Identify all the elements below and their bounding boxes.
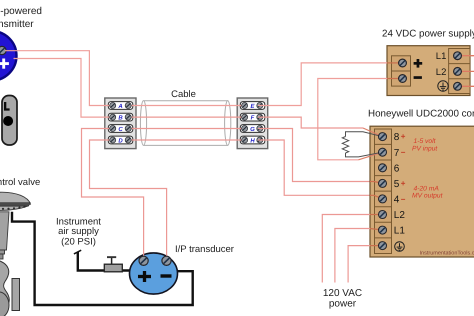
label: Instrument air supply (20 PSI): [56, 217, 101, 248]
gauge L (grey rounded object): [2, 96, 17, 146]
resistor 250 ohm across UDC 8 and 7: [342, 132, 382, 157]
wire stub into UDC terminal 5: [370, 182, 383, 184]
label: Loop-powered transmitter: [0, 6, 42, 30]
svg-text:Loop-powered: Loop-powered: [0, 6, 42, 17]
TB1 terminal letters A B C D: [117, 103, 123, 144]
UDC ground symbol: [395, 242, 405, 252]
label: 120 VAC power: [323, 288, 362, 310]
24V supply + symbol: [414, 59, 423, 79]
svg-text:D: D: [118, 137, 123, 144]
cable sheath: [140, 101, 230, 146]
label: 4-20 mA MV output: [412, 186, 444, 200]
wire: A to E conductor: [131, 105, 246, 107]
svg-text:L1: L1: [394, 226, 406, 237]
wire: terminal F to UDC terminal 8: [258, 117, 363, 128]
wire stub over box to + screw: [387, 62, 403, 64]
svg-text:5: 5: [394, 179, 400, 190]
label: 1-5 volt PV input: [412, 138, 438, 153]
UDC polarity marks: [401, 132, 406, 204]
hand valve on air supply line: [104, 256, 122, 272]
wire: terminal C to I/P +: [82, 129, 144, 257]
wire: D to H conductor: [131, 139, 246, 141]
svg-text:MV output: MV output: [412, 193, 444, 200]
control valve body with flange: [0, 259, 20, 316]
wire: 24V supply L2 to mains: [458, 70, 474, 72]
air supply tube into I/P: [74, 250, 131, 270]
svg-text:4-20 mA: 4-20 mA: [414, 186, 440, 193]
UDC terminal number labels: [394, 132, 406, 237]
svg-text:−: −: [401, 148, 406, 157]
wire stub into UDC terminal 7: [359, 152, 383, 160]
svg-text:+: +: [401, 179, 406, 188]
wire: UDC ground to 120VAC: [370, 245, 383, 247]
24V supply ground symbol: [438, 81, 448, 91]
svg-text:air supply: air supply: [58, 226, 99, 237]
svg-text:Honeywell UDC2000 controller: Honeywell UDC2000 controller: [368, 109, 474, 120]
control valve yoke / stem: [0, 212, 9, 259]
svg-text:A: A: [117, 103, 122, 110]
wire: transmitter + to terminal A: [5, 51, 110, 106]
wire: terminal H to UDC terminal 4: [258, 140, 370, 195]
transmitter + symbol: [0, 59, 9, 69]
TB2 screws: [242, 103, 263, 144]
svg-text:C: C: [118, 126, 123, 133]
control valve actuator dome: [0, 192, 31, 210]
svg-text:Cable: Cable: [171, 89, 196, 100]
UDC terminal screws 8,7,6,5,4,L2,L1,gnd: [379, 133, 387, 250]
wire: 24V - toward UDC terminal 7: [318, 79, 387, 160]
svg-text:+: +: [401, 132, 406, 141]
wire: 24V supply L1 to mains: [458, 55, 474, 57]
svg-text:transmitter: transmitter: [0, 19, 34, 30]
wire: terminal D to I/P -: [90, 140, 167, 257]
svg-text:L2: L2: [436, 67, 447, 78]
svg-text:F: F: [251, 115, 255, 122]
I/P + symbol: [138, 271, 151, 282]
wire: terminal E to 24V +: [258, 63, 387, 106]
transmitter TT (blue circle): [0, 31, 17, 80]
24V supply terminal screws: [399, 52, 462, 90]
svg-text:G: G: [250, 126, 255, 133]
TB1 screws: [110, 103, 132, 144]
svg-text:7: 7: [394, 148, 400, 159]
wire: C to G conductor: [131, 128, 246, 130]
wire: UDC L2 to 120VAC: [370, 214, 383, 216]
terminal block TB2 (E-H): [237, 98, 268, 149]
I/P screw terminals: [139, 256, 171, 265]
svg-text:−: −: [401, 195, 406, 204]
svg-text:I/P transducer: I/P transducer: [175, 244, 234, 255]
svg-text:8: 8: [394, 132, 400, 143]
wire: UDC L1 to 120VAC: [370, 229, 383, 231]
Honeywell UDC2000 controller box: [370, 126, 474, 257]
svg-text:(20 PSI): (20 PSI): [61, 237, 96, 248]
wire stub into UDC terminal 8: [363, 128, 383, 137]
svg-text:6: 6: [394, 163, 400, 174]
24V supply - symbol: [414, 76, 422, 79]
wire: 24V supply ground to mains: [458, 85, 474, 87]
svg-text:B: B: [118, 115, 123, 122]
svg-text:L2: L2: [394, 210, 406, 221]
wire: B to F conductor: [131, 116, 246, 118]
TB2 terminal letters E F G H: [250, 103, 255, 144]
svg-text:120 VAC: 120 VAC: [323, 288, 362, 299]
svg-text:H: H: [250, 137, 255, 144]
svg-text:4: 4: [394, 195, 400, 206]
24V supply labels L1 L2: [436, 51, 447, 78]
I/P - symbol: [161, 274, 172, 277]
I/P transducer (light blue circle): [130, 253, 178, 294]
wire: transmitter - to terminal B: [14, 59, 111, 118]
wire: terminal G to UDC terminal 5: [258, 129, 370, 182]
svg-text:24 VDC power supply: 24 VDC power supply: [382, 29, 474, 40]
terminal block TB1 (A-D): [105, 98, 136, 149]
transmitter screw terminal: [0, 46, 6, 54]
svg-text:L1: L1: [436, 51, 447, 62]
24 VDC power supply box: [387, 46, 470, 96]
pneumatic tube: I/P output to valve actuator: [12, 212, 193, 305]
svg-text:1-5 volt: 1-5 volt: [414, 138, 437, 145]
svg-text:PV input: PV input: [412, 146, 438, 153]
svg-text:InstrumentationTools.com: InstrumentationTools.com: [420, 251, 474, 257]
wire stub into UDC terminal 4: [370, 195, 383, 199]
svg-text:power: power: [329, 299, 357, 310]
svg-text:Control valve: Control valve: [0, 177, 40, 188]
